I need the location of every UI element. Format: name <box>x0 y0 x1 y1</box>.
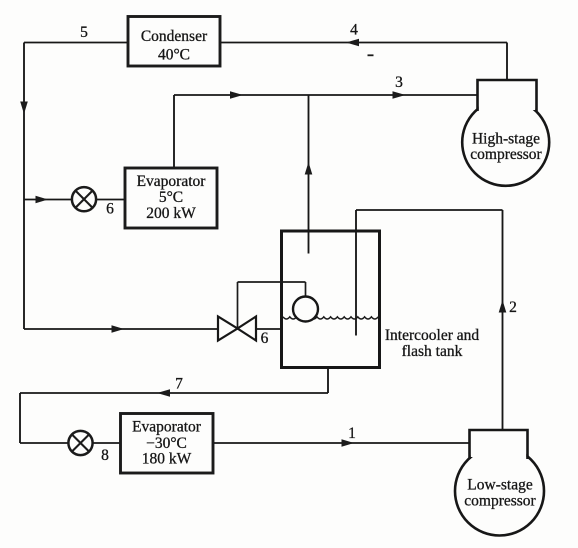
wire line 7 vertical from tank bottom <box>327 367 329 393</box>
svg-text:High-stage: High-stage <box>472 130 540 147</box>
svg-text:6: 6 <box>261 330 269 347</box>
svg-text:compressor: compressor <box>464 493 536 510</box>
wire valve 8 to evaporator -30C <box>93 442 121 444</box>
arrow left on line 4 <box>346 39 359 47</box>
arrow down on left rail <box>20 102 28 115</box>
condenser box <box>128 17 220 67</box>
svg-text:flash tank: flash tank <box>402 343 463 360</box>
expansion valve V6 (circle-X) <box>72 187 96 211</box>
intercooler and flash tank <box>238 231 480 368</box>
wire line 4 condenser to compressor <box>220 42 507 44</box>
wire line 7 left vertical <box>19 393 21 443</box>
svg-text:compressor: compressor <box>470 146 542 163</box>
svg-text:3: 3 <box>395 74 403 91</box>
svg-text:1: 1 <box>348 425 356 442</box>
float ball <box>293 297 318 322</box>
arrow right on line 1 <box>342 439 355 447</box>
high-stage compressor U-high <box>462 80 549 186</box>
svg-text:200 kW: 200 kW <box>146 205 196 222</box>
svg-text:Evaporator: Evaporator <box>132 419 202 436</box>
low-stage compressor U-low <box>455 430 544 536</box>
wire flash-tank vapor line up to line 3 <box>308 95 310 254</box>
svg-text:Low-stage: Low-stage <box>467 477 533 494</box>
wire line 5 horizontal condenser to left rail <box>24 42 128 44</box>
wire branch to expansion valve 6 <box>24 199 73 201</box>
arrow left on line 7 <box>157 389 170 397</box>
evaporator -30C box <box>121 414 214 474</box>
wire line 2 vertical from low-stage compressor <box>502 210 504 430</box>
liquid level wavy line <box>283 317 378 319</box>
svg-text:Intercooler and: Intercooler and <box>385 327 479 344</box>
svg-text:5°C: 5°C <box>159 189 183 206</box>
evaporator 5C box <box>125 168 217 228</box>
svg-text:6: 6 <box>106 201 114 218</box>
svg-text:−30°C: −30°C <box>146 435 187 452</box>
svg-text:Condenser: Condenser <box>141 28 208 45</box>
wire left rail to float valve <box>24 328 218 330</box>
arrow up on line 2 <box>499 300 507 313</box>
wire elbow from evaporator 5C up to line 3 <box>173 95 175 168</box>
wire line 2 horizontal to tank <box>356 209 503 211</box>
svg-text:180 kW: 180 kW <box>142 451 192 468</box>
wire line 4 vertical into high-stage compressor <box>506 43 508 81</box>
svg-text:5: 5 <box>80 24 88 41</box>
wire line 1 evaporator to low-stage compressor <box>213 442 469 444</box>
float valve V-float (bowtie) <box>218 317 256 341</box>
wire to expansion valve 8 <box>20 442 69 444</box>
wire line 2 dip tube into tank <box>355 210 357 336</box>
arrow right on branch 6 <box>36 196 49 204</box>
wire float valve to tank <box>256 328 283 330</box>
wire line 3 horizontal <box>174 94 477 96</box>
float linkage <box>237 282 239 329</box>
wire left rail vertical <box>23 43 25 330</box>
arrow right on line 3 second <box>393 91 406 99</box>
arrow up on flash-tank vapor line <box>305 162 313 175</box>
wire line 7 horizontal <box>20 392 328 394</box>
svg-text:40°C: 40°C <box>158 47 190 64</box>
svg-text:2: 2 <box>509 299 517 316</box>
svg-text:8: 8 <box>101 447 109 464</box>
svg-text:4: 4 <box>350 22 358 39</box>
stray dash mark under line 4 <box>368 54 374 56</box>
svg-text:Evaporator: Evaporator <box>137 173 207 190</box>
svg-text:7: 7 <box>175 376 183 393</box>
arrow right on float valve feed <box>112 325 125 333</box>
expansion valve V8 (circle-X) <box>68 431 92 455</box>
arrow right on line 3 first <box>230 91 243 99</box>
wire valve 6 to evaporator 5C <box>96 199 126 201</box>
